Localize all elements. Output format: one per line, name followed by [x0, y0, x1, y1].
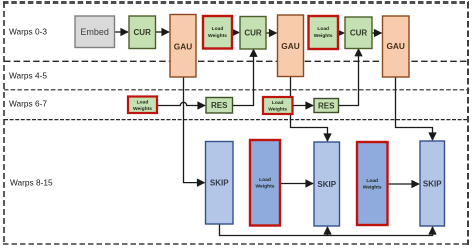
- arrow CUR2 to GAU2: [266, 32, 277, 34]
- wire SKIP1 bottom feedback to SKIP2 and SKIP3: [220, 225, 433, 236]
- outer dashed border left: [3, 2, 5, 245]
- arrow Embed to CUR1: [115, 31, 129, 33]
- arrow CUR1 to GAU1: [156, 31, 170, 33]
- svg-text:Weights: Weights: [268, 107, 287, 113]
- box SKIP3: [420, 141, 445, 226]
- svg-text:Warps 4-5: Warps 4-5: [9, 71, 47, 81]
- svg-text:Weights: Weights: [256, 184, 275, 190]
- box RES1: [206, 98, 233, 114]
- arrow LW2 to CUR3: [338, 32, 344, 34]
- lane divider line 3: [4, 119, 467, 121]
- outer dashed border right: [467, 2, 469, 245]
- box Load Weights LW2: [309, 16, 339, 49]
- box Load Weights LWb (row 6-7): [263, 97, 293, 114]
- svg-text:Embed: Embed: [80, 27, 109, 37]
- lane divider line 2: [4, 89, 467, 91]
- svg-text:Load: Load: [259, 177, 271, 183]
- svg-text:Load: Load: [137, 100, 149, 106]
- svg-text:GAU: GAU: [386, 41, 404, 51]
- arrow CUR3 to GAU3: [372, 32, 382, 34]
- box CUR1: [129, 16, 156, 49]
- svg-text:GAU: GAU: [281, 41, 299, 51]
- box CUR3: [345, 17, 372, 49]
- arrow LW5 to SKIP3: [388, 183, 420, 185]
- svg-text:Load: Load: [366, 178, 378, 184]
- box CUR2: [240, 17, 266, 50]
- arrow LW1 to CUR2: [232, 32, 239, 34]
- svg-text:Warps 6-7: Warps 6-7: [9, 99, 47, 109]
- svg-text:Weights: Weights: [133, 106, 152, 112]
- svg-text:Load: Load: [212, 26, 224, 32]
- wire GAU3 down to SKIP3 top: [396, 77, 433, 140]
- box GAU2: [278, 15, 304, 77]
- wire GAU2 down to SKIP2 top: [291, 77, 328, 142]
- svg-text:Warps 8-15: Warps 8-15: [10, 178, 53, 188]
- svg-text:SKIP: SKIP: [317, 180, 336, 189]
- svg-text:GAU: GAU: [174, 41, 192, 51]
- outer dashed border bottom: [3, 243, 469, 245]
- svg-text:CUR: CUR: [134, 28, 152, 37]
- wire branch up into SKIP2 bottom: [327, 227, 329, 236]
- box Load Weights LWa (row 6-7): [128, 97, 157, 114]
- box Load Weights LW4 (tall blue): [250, 140, 280, 226]
- svg-text:Load: Load: [272, 100, 284, 106]
- svg-text:Weights: Weights: [363, 185, 382, 191]
- box SKIP1: [206, 142, 234, 225]
- wire LWa to RES1 with hop: [157, 102, 205, 105]
- svg-text:CUR: CUR: [350, 29, 368, 38]
- box Load Weights LW5 (tall blue): [357, 142, 388, 225]
- svg-text:Weights: Weights: [208, 33, 227, 39]
- svg-text:Load: Load: [317, 26, 329, 32]
- box SKIP2: [314, 142, 340, 226]
- svg-text:RES: RES: [318, 101, 335, 110]
- lane divider line 1: [4, 60, 467, 62]
- wire GAU1 down to SKIP1: [184, 77, 205, 183]
- box RES2: [314, 99, 339, 113]
- svg-text:SKIP: SKIP: [210, 179, 229, 188]
- svg-text:CUR: CUR: [244, 29, 262, 38]
- svg-text:RES: RES: [211, 101, 228, 110]
- box GAU1: [170, 15, 196, 78]
- wire RES1 to CUR2 bottom: [233, 49, 254, 105]
- box GAU3: [383, 16, 410, 77]
- svg-text:Weights: Weights: [314, 33, 333, 39]
- svg-text:Warps 0-3: Warps 0-3: [9, 27, 47, 37]
- box Embed: [75, 16, 115, 48]
- wire LWb to RES2: [293, 105, 313, 107]
- arrow LW4 to SKIP2: [280, 183, 313, 185]
- outer dashed border top: [3, 1, 469, 4]
- wire RES2 to CUR3 bottom: [339, 49, 359, 106]
- box Load Weights LW1: [203, 16, 232, 49]
- svg-text:SKIP: SKIP: [423, 179, 442, 188]
